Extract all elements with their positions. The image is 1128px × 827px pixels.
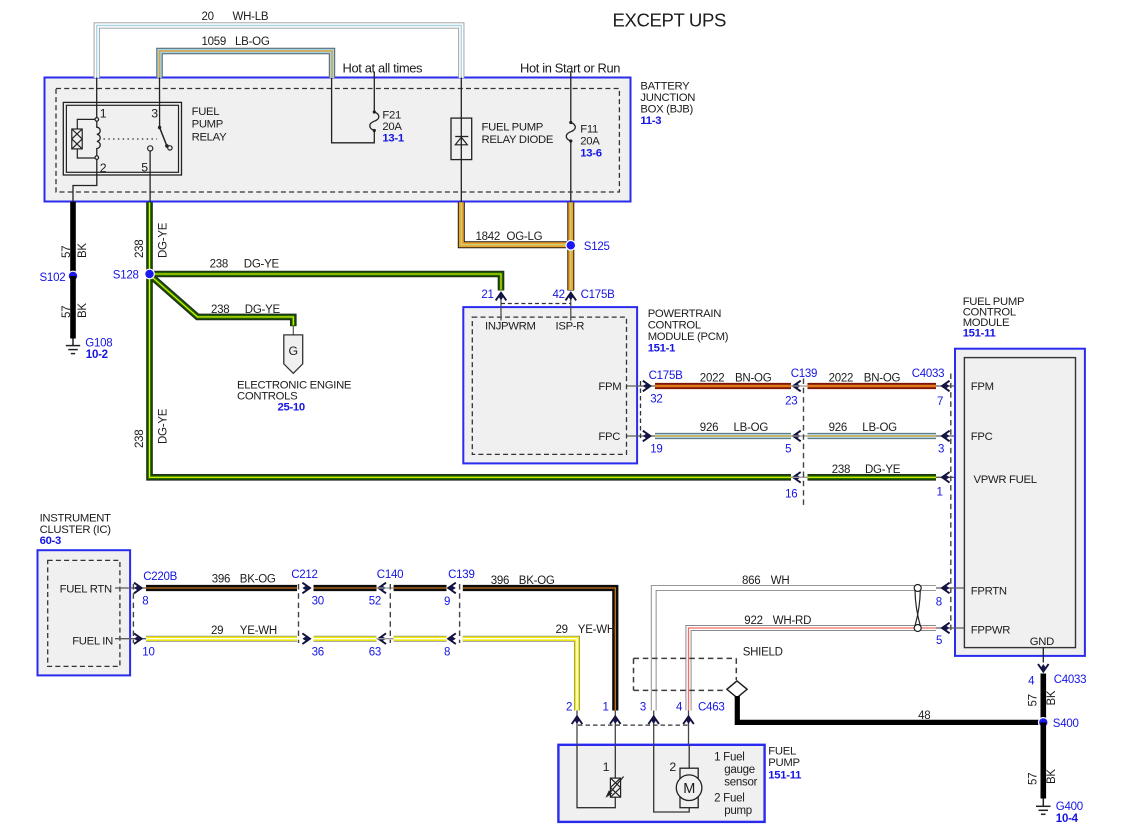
wire 2022 BN-OG segment 1 — [655, 383, 791, 389]
svg-text:238: 238 — [832, 464, 850, 476]
svg-text:1059: 1059 — [202, 36, 227, 48]
fuse F21 wiring — [332, 78, 375, 143]
relay pin 5 wire — [149, 151, 151, 202]
arrow into C463 pin 2 — [572, 716, 583, 724]
wire 57 BK from GND — [1041, 674, 1047, 723]
svg-text:396: 396 — [212, 574, 230, 586]
svg-text:ISP-R: ISP-R — [556, 321, 585, 333]
PCM FPM pin lead — [627, 385, 656, 387]
svg-text:C212: C212 — [291, 569, 318, 581]
svg-text:C175B: C175B — [581, 289, 615, 301]
BJB name label 11-3 — [640, 80, 695, 127]
svg-text:1: 1 — [603, 702, 609, 714]
FPM lead into FPCM — [936, 385, 964, 387]
svg-text:DG-YE: DG-YE — [158, 408, 170, 444]
svg-text:SHIELD: SHIELD — [743, 646, 783, 658]
wire 238 DG-YE main vertical and row 3 run — [150, 202, 792, 477]
svg-text:238: 238 — [134, 430, 146, 448]
PCM name label 151-1 — [648, 308, 729, 355]
connector G pentagon — [284, 335, 303, 373]
svg-text:1 Fuel: 1 Fuel — [714, 752, 744, 764]
wire 29 YE-WH segment 1 — [146, 636, 297, 642]
splice S128 — [145, 269, 155, 279]
svg-text:2022: 2022 — [829, 373, 854, 385]
fuel pump relay diode wire — [460, 78, 462, 203]
svg-text:VPWR FUEL: VPWR FUEL — [974, 474, 1037, 486]
svg-text:YE-WH: YE-WH — [578, 624, 615, 636]
label 2022 BN-OG 2 — [829, 373, 901, 385]
relay switch blade — [158, 126, 172, 150]
arrow into C463 pin 4 — [683, 716, 694, 724]
connector C139 dashed vertical (PCM rows) — [803, 379, 805, 506]
arrow out of FPC — [643, 431, 651, 442]
relay pin 2 wire — [73, 159, 97, 202]
FUEL RTN pin lead — [115, 587, 146, 589]
fuel pump relay box — [63, 102, 181, 175]
svg-text:396: 396 — [491, 575, 509, 587]
fuel pump box — [558, 745, 764, 822]
fuel pump motor housing — [680, 768, 698, 808]
svg-text:20: 20 — [202, 11, 214, 23]
svg-text:20A: 20A — [580, 135, 600, 147]
svg-text:S128: S128 — [113, 269, 139, 281]
svg-text:8: 8 — [936, 597, 942, 609]
ground G400 symbol — [1036, 799, 1051, 815]
svg-text:8: 8 — [142, 595, 148, 607]
label 29 YE-WH 2 — [556, 624, 615, 636]
svg-text:5: 5 — [936, 635, 942, 647]
svg-text:WH-LB: WH-LB — [233, 11, 269, 23]
svg-text:RELAY DIODE: RELAY DIODE — [482, 134, 554, 146]
svg-text:8: 8 — [444, 646, 450, 658]
svg-text:PUMP: PUMP — [192, 119, 223, 131]
ground G108 symbol — [66, 339, 80, 354]
FPPWR lead into FPCM — [936, 627, 964, 629]
lead to G connector — [292, 326, 294, 335]
svg-text:FUEL RTN: FUEL RTN — [60, 583, 112, 595]
label 238 DG-YE vertical lower (rotated) — [134, 408, 169, 448]
wire 866 WH — [654, 588, 936, 711]
svg-text:CLUSTER (IC): CLUSTER (IC) — [40, 524, 112, 536]
svg-text:151-1: 151-1 — [648, 343, 675, 355]
FUEL IN pin lead — [115, 638, 146, 640]
svg-text:S125: S125 — [584, 241, 610, 253]
label 396 BK-OG 2 — [491, 575, 555, 587]
svg-text:G400: G400 — [1056, 801, 1083, 813]
arrow from C212 row4 — [302, 583, 310, 594]
arrow into FPCM FPRTN — [942, 583, 950, 594]
connector C463 leads — [577, 711, 689, 745]
fuel pump motor M — [676, 775, 702, 801]
svg-text:4: 4 — [1028, 676, 1035, 688]
svg-text:57: 57 — [61, 246, 73, 258]
relay pin 1 terminal — [95, 118, 99, 122]
arrow into C463 pin 1 — [610, 716, 621, 724]
label G400 10-4 — [1056, 801, 1083, 825]
svg-text:2: 2 — [566, 702, 572, 714]
svg-text:BK-OG: BK-OG — [519, 575, 555, 587]
svg-text:CONTROL: CONTROL — [648, 320, 701, 332]
wire 20 WH-LB — [97, 26, 462, 79]
svg-text:FPPWR: FPPWR — [971, 624, 1010, 636]
svg-text:Hot in Start or Run: Hot in Start or Run — [520, 61, 620, 76]
svg-text:FPM: FPM — [598, 381, 621, 393]
svg-text:11-3: 11-3 — [640, 115, 661, 127]
connector C220B dashed vertical — [132, 584, 134, 643]
arrow from C212 row5 — [302, 633, 310, 644]
battery junction box (BJB) outline — [45, 78, 631, 202]
fuel pump relay name label — [192, 106, 227, 144]
svg-text:JUNCTION: JUNCTION — [640, 92, 695, 104]
svg-text:BK: BK — [1046, 769, 1058, 784]
relay dotted link — [104, 138, 158, 140]
label 1059 LB-OG — [202, 36, 270, 48]
svg-text:3: 3 — [640, 702, 646, 714]
gray lead across C139 row1 — [791, 385, 808, 387]
svg-text:3: 3 — [151, 107, 158, 121]
wire 926 LB-OG segment 1 — [655, 433, 791, 439]
svg-text:2 Fuel: 2 Fuel — [714, 793, 744, 805]
VPWR lead into FPCM — [936, 476, 964, 478]
svg-text:866: 866 — [742, 575, 760, 587]
relay pin 3 wire — [159, 78, 161, 128]
connector C139 dashed vertical (IC rows) — [459, 584, 461, 643]
gray lead across C139 row2 — [791, 435, 808, 437]
label 29 YE-WH 1 — [211, 625, 277, 637]
svg-text:pump: pump — [724, 805, 752, 817]
svg-text:1842: 1842 — [476, 231, 501, 243]
FPRTN lead into FPCM — [936, 587, 964, 589]
svg-text:25-10: 25-10 — [278, 402, 305, 414]
fuel pump internal legend — [714, 752, 758, 818]
svg-text:1: 1 — [937, 487, 943, 499]
arrow into FPCM FPC — [942, 431, 950, 442]
svg-text:ELECTRONIC ENGINE: ELECTRONIC ENGINE — [237, 379, 352, 391]
svg-text:C140: C140 — [377, 569, 404, 581]
arrow out of FUEL IN — [134, 633, 142, 644]
electronic engine controls label 25-10 — [237, 379, 352, 413]
svg-text:926: 926 — [829, 422, 847, 434]
svg-text:32: 32 — [650, 393, 662, 405]
svg-text:BATTERY: BATTERY — [640, 80, 690, 92]
gray lead across C140 row5 — [377, 638, 394, 640]
svg-text:GND: GND — [1030, 636, 1054, 648]
relay pin 1 wire — [96, 78, 98, 118]
PCM FPC pin lead — [627, 435, 656, 437]
svg-text:151-11: 151-11 — [963, 328, 996, 340]
svg-text:C4033: C4033 — [912, 368, 945, 380]
connector C175B dashed vertical — [640, 381, 642, 441]
label 57 BK upper right (rotated) — [1028, 690, 1058, 706]
arrow into FPCM FPM — [942, 381, 950, 392]
arrow out of GND — [1038, 664, 1049, 672]
shield drain diamond — [727, 681, 747, 698]
svg-text:20A: 20A — [382, 121, 402, 133]
svg-text:2022: 2022 — [700, 373, 725, 385]
wire 57 BK upper segment — [70, 202, 76, 276]
connector C4033 dashed vertical — [950, 374, 952, 633]
svg-text:13-6: 13-6 — [580, 148, 601, 160]
svg-text:C175B: C175B — [649, 370, 683, 382]
svg-text:G: G — [289, 344, 298, 358]
fuel gauge sensor circuit wires — [577, 745, 616, 808]
wire 1059 LB-OG — [160, 51, 333, 78]
wire OG from F11 through S125 to PCM pin 42 — [567, 202, 574, 290]
svg-text:DG-YE: DG-YE — [865, 464, 901, 476]
arrow at C139 pin 16 (row 3) — [793, 472, 801, 483]
fuel gauge sensor (variable resistor) — [609, 777, 624, 798]
wire 1842 OG-LG horizontal from diode — [461, 202, 567, 245]
svg-text:DG-YE: DG-YE — [244, 258, 280, 270]
FPCM name label 151-11 — [963, 296, 1025, 340]
arrow at C139 pin 8 — [448, 633, 456, 644]
svg-text:FUEL IN: FUEL IN — [72, 635, 113, 647]
wire 238 DG-YE branch to PCM pin 21 — [150, 274, 502, 291]
svg-text:63: 63 — [369, 646, 381, 658]
label 238 DG-YE vertical upper (rotated) — [134, 222, 170, 258]
svg-text:21: 21 — [481, 289, 493, 301]
wire 29 YE-WH segment 3 — [394, 636, 447, 642]
svg-text:FPC: FPC — [598, 431, 620, 443]
svg-text:238: 238 — [211, 304, 229, 316]
svg-text:57: 57 — [1028, 773, 1040, 785]
svg-text:C139: C139 — [791, 368, 818, 380]
label 396 BK-OG 1 — [212, 574, 276, 586]
svg-text:7: 7 — [937, 396, 943, 408]
svg-text:S400: S400 — [1053, 718, 1079, 730]
wire 29 YE-WH segment 4 to fuel pump — [463, 639, 577, 711]
wire 922 WH-RD — [689, 628, 937, 711]
svg-text:LB-OG: LB-OG — [734, 422, 769, 434]
svg-text:DG-YE: DG-YE — [245, 304, 281, 316]
svg-text:5: 5 — [141, 160, 148, 174]
wire 396 BK-OG segment 1 — [146, 585, 297, 591]
svg-text:238: 238 — [134, 240, 146, 258]
wire 926 LB-OG segment 2 — [808, 433, 937, 439]
svg-text:3: 3 — [938, 444, 944, 456]
PCM pin 42 lead — [570, 295, 572, 321]
label 238 DG-YE branch 1 — [210, 258, 280, 270]
svg-text:36: 36 — [312, 646, 324, 658]
svg-text:C4033: C4033 — [1054, 674, 1087, 686]
wire 396 BK-OG segment 3 — [394, 585, 447, 591]
svg-text:BN-OG: BN-OG — [864, 373, 901, 385]
svg-text:gauge: gauge — [724, 764, 755, 776]
relay pin 2 terminal — [95, 156, 99, 160]
arrow at C139 pin 23 — [793, 381, 801, 392]
svg-text:10: 10 — [142, 646, 154, 658]
wire 396 BK-OG segment 2 — [314, 585, 377, 591]
svg-text:G108: G108 — [85, 338, 112, 350]
svg-text:POWERTRAIN: POWERTRAIN — [648, 308, 722, 320]
fuel pump name label 151-11 — [768, 746, 801, 782]
arrow into FPCM VPWR FUEL — [942, 472, 950, 483]
twisted pair symbol — [914, 585, 921, 632]
svg-text:sensor: sensor — [724, 777, 757, 789]
shield dashed outline — [634, 658, 737, 690]
F21 label 13-1 — [382, 110, 403, 145]
label 866 WH — [742, 575, 789, 587]
svg-text:BN-OG: BN-OG — [735, 373, 772, 385]
svg-text:BK: BK — [77, 243, 89, 258]
svg-text:4: 4 — [676, 702, 683, 714]
arrow at C140 pin 52 — [378, 583, 386, 594]
connector C175B dashed link top — [501, 303, 571, 305]
label 238 DG-YE branch 2 — [211, 304, 281, 316]
F11 label 13-6 — [580, 123, 601, 159]
connector C212 dashed vertical — [298, 584, 300, 643]
svg-text:INJPWRM: INJPWRM — [485, 321, 536, 333]
PCM pin 21 lead — [500, 295, 502, 321]
svg-text:OG-LG: OG-LG — [507, 231, 543, 243]
label G108 10-2 — [85, 338, 112, 361]
svg-text:2: 2 — [100, 161, 107, 175]
svg-text:30: 30 — [312, 595, 324, 607]
wire 29 YE-WH segment 2 — [314, 636, 377, 642]
label 926 LB-OG 2 — [829, 422, 898, 434]
svg-text:42: 42 — [553, 289, 565, 301]
fuse F21 20A — [370, 72, 379, 133]
gray lead across C139 row3 — [791, 476, 808, 478]
connector C140 dashed vertical — [389, 584, 391, 643]
gray lead across C140 row4 — [377, 587, 394, 589]
svg-text:F11: F11 — [580, 123, 598, 135]
svg-text:57: 57 — [1028, 694, 1040, 706]
wire 57 BK lower segment — [70, 276, 76, 339]
svg-text:C139: C139 — [448, 569, 475, 581]
label 2022 BN-OG 1 — [700, 373, 772, 385]
svg-text:BK-OG: BK-OG — [240, 574, 276, 586]
svg-text:5: 5 — [785, 444, 791, 456]
fuse F11 20A — [566, 72, 575, 203]
arrow out of FUEL RTN — [134, 583, 142, 594]
relay suppression resistor — [72, 119, 95, 158]
svg-text:23: 23 — [785, 396, 797, 408]
svg-text:151-11: 151-11 — [768, 769, 801, 781]
svg-text:EXCEPT UPS: EXCEPT UPS — [613, 9, 726, 30]
svg-text:52: 52 — [369, 595, 381, 607]
FPC lead into FPCM — [936, 435, 964, 437]
svg-text:LB-OG: LB-OG — [862, 422, 897, 434]
svg-text:YE-WH: YE-WH — [240, 625, 277, 637]
svg-text:13-1: 13-1 — [382, 133, 403, 145]
wire 396 BK-OG segment 4 to fuel pump — [463, 588, 616, 711]
svg-text:FUEL PUMP: FUEL PUMP — [482, 121, 544, 133]
fuel pump control module box — [955, 349, 1085, 656]
wire 48 BK shield drain to S400 — [737, 696, 1040, 722]
svg-text:16: 16 — [785, 489, 797, 501]
relay coil — [97, 121, 100, 156]
powertrain control module box — [463, 307, 637, 463]
arrow into pin 42 — [566, 293, 577, 301]
connector C463 dashed link — [578, 724, 689, 726]
svg-text:Hot at all times: Hot at all times — [343, 61, 423, 76]
svg-text:FUEL: FUEL — [192, 106, 220, 118]
sensor wiper arrowhead — [605, 790, 612, 798]
svg-text:10-4: 10-4 — [1056, 813, 1079, 825]
svg-text:PUMP: PUMP — [768, 757, 799, 769]
splice S400 — [1039, 718, 1049, 728]
splice S102 — [68, 271, 78, 281]
svg-text:C220B: C220B — [143, 571, 177, 583]
GND lead below FPCM — [1042, 648, 1044, 663]
svg-text:1: 1 — [100, 107, 107, 121]
svg-text:29: 29 — [556, 624, 568, 636]
svg-text:C463: C463 — [698, 702, 725, 714]
fuel pump motor circuit wires — [654, 745, 690, 812]
svg-text:DG-YE: DG-YE — [158, 222, 170, 258]
label 926 LB-OG 1 — [700, 422, 769, 434]
fuel pump relay diode — [451, 118, 472, 160]
arrow at C139 pin 5 — [793, 431, 801, 442]
arrow into pin 21 — [496, 293, 507, 301]
svg-text:INSTRUMENT: INSTRUMENT — [40, 513, 111, 525]
relay pin 5 fixed contact — [148, 146, 153, 151]
arrow at C140 pin 63 — [378, 633, 386, 644]
svg-text:2: 2 — [669, 760, 676, 774]
label 57 BK upper (rotated) — [61, 243, 89, 258]
svg-text:BK: BK — [1046, 690, 1058, 705]
IC name label 60-3 — [40, 513, 112, 547]
wire 57 BK to G400 — [1041, 722, 1047, 798]
diode name label — [482, 121, 554, 146]
svg-text:FUEL: FUEL — [768, 746, 796, 758]
svg-text:RELAY: RELAY — [192, 132, 227, 144]
svg-text:1: 1 — [603, 760, 610, 774]
arrow out of FPM — [643, 381, 651, 392]
svg-text:926: 926 — [700, 422, 718, 434]
arrow at C139 pin 9 — [448, 583, 456, 594]
svg-text:9: 9 — [444, 596, 450, 608]
svg-text:922: 922 — [744, 615, 762, 627]
svg-text:29: 29 — [211, 625, 223, 637]
instrument cluster box — [38, 550, 131, 675]
svg-text:MODULE (PCM): MODULE (PCM) — [648, 331, 729, 343]
svg-text:S102: S102 — [40, 272, 66, 284]
label 57 BK lower right (rotated) — [1028, 769, 1058, 785]
svg-text:WH: WH — [771, 575, 790, 587]
svg-text:LB-OG: LB-OG — [235, 36, 270, 48]
wire 238 DG-YE segment right of C139 — [808, 474, 937, 481]
svg-text:FPC: FPC — [971, 431, 993, 443]
svg-text:19: 19 — [650, 443, 662, 455]
label 238 DG-YE row 3 — [832, 464, 901, 476]
svg-text:BK: BK — [77, 303, 89, 318]
label 922 WH-RD — [744, 615, 811, 627]
svg-text:WH-RD: WH-RD — [773, 615, 811, 627]
svg-text:57: 57 — [61, 306, 73, 318]
wire 238 DG-YE branch to electronic engine controls — [152, 277, 294, 327]
label 1842 OG-LG — [476, 231, 543, 243]
svg-text:238: 238 — [210, 258, 228, 270]
svg-text:FPRTN: FPRTN — [971, 586, 1007, 598]
splice S125 — [566, 241, 576, 251]
wire 2022 BN-OG segment 2 — [808, 383, 937, 389]
svg-text:M: M — [683, 781, 695, 797]
svg-text:10-2: 10-2 — [86, 349, 108, 361]
label 20 WH-LB — [202, 11, 269, 23]
svg-text:F21: F21 — [382, 110, 401, 122]
label 57 BK lower (rotated) — [61, 303, 89, 318]
arrow into C463 pin 3 — [648, 716, 659, 724]
svg-text:48: 48 — [918, 710, 930, 722]
svg-text:60-3: 60-3 — [40, 535, 61, 547]
arrow into FPCM FPPWR — [942, 623, 950, 634]
svg-text:FPM: FPM — [971, 381, 994, 393]
svg-text:BOX (BJB): BOX (BJB) — [640, 103, 693, 115]
